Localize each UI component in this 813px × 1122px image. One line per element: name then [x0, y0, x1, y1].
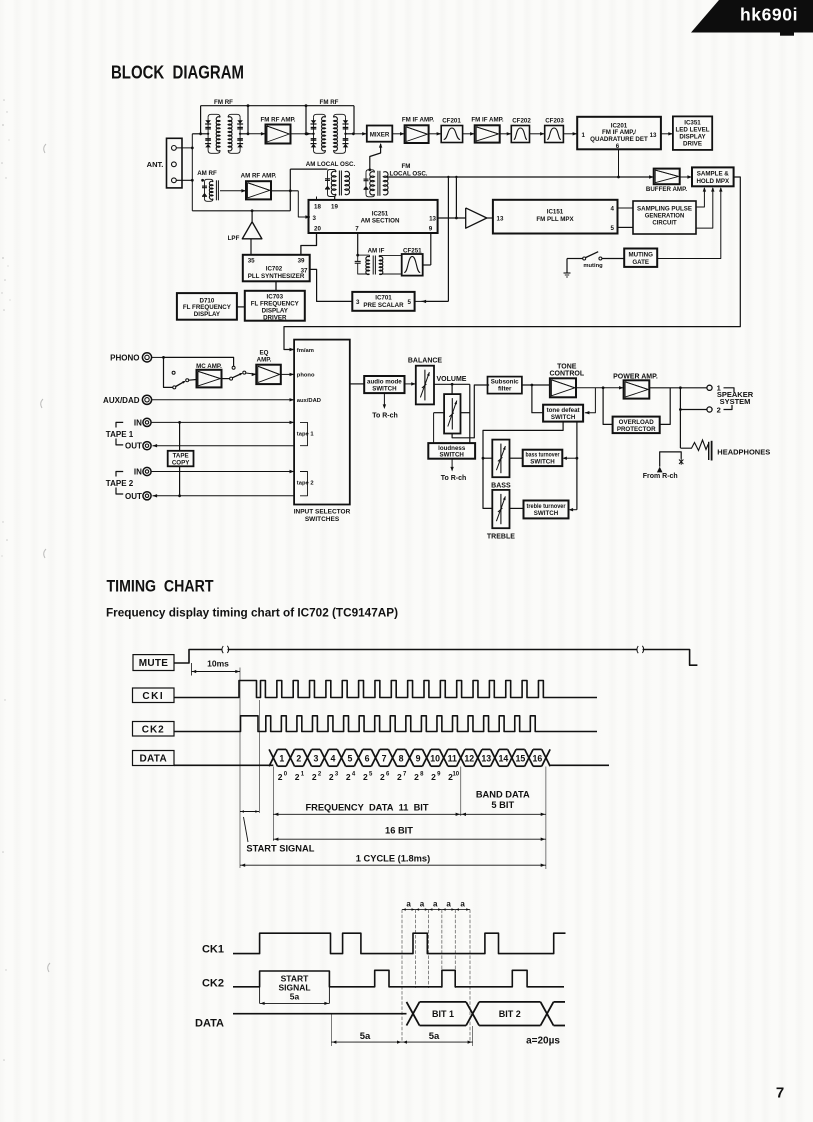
svg-text:7: 7 — [355, 226, 359, 233]
svg-text:COPY: COPY — [172, 459, 190, 466]
svg-text:16: 16 — [533, 754, 543, 764]
svg-text:5: 5 — [611, 225, 615, 232]
svg-text:6: 6 — [386, 771, 390, 777]
svg-text:CKI: CKI — [142, 691, 164, 702]
svg-text:tape 1: tape 1 — [297, 431, 315, 437]
svg-text:SAMPLE &: SAMPLE & — [697, 170, 730, 177]
svg-text:hk690i: hk690i — [740, 5, 798, 25]
svg-text:9: 9 — [437, 771, 441, 777]
svg-text:ANT.: ANT. — [147, 160, 164, 169]
svg-text:CK1: CK1 — [202, 943, 224, 955]
svg-text:13: 13 — [481, 754, 491, 764]
svg-text:5a: 5a — [429, 1031, 440, 1042]
svg-text:EQ: EQ — [260, 349, 269, 356]
svg-text:SYSTEM: SYSTEM — [720, 397, 751, 406]
svg-text:2: 2 — [363, 772, 368, 782]
svg-text:13: 13 — [497, 215, 504, 222]
svg-text:5: 5 — [408, 299, 412, 306]
svg-text:9: 9 — [416, 754, 421, 764]
svg-text:LPF: LPF — [228, 235, 240, 242]
svg-text:DRIVER: DRIVER — [263, 314, 287, 321]
svg-text:1: 1 — [279, 754, 284, 764]
svg-text:39: 39 — [298, 257, 305, 264]
svg-text:BAND DATA: BAND DATA — [476, 789, 530, 799]
svg-text:SAMPLING PULSE: SAMPLING PULSE — [637, 206, 692, 212]
svg-text:5: 5 — [369, 771, 373, 777]
svg-text:10: 10 — [452, 771, 459, 777]
svg-text:2: 2 — [397, 772, 402, 782]
svg-text:IC702: IC702 — [266, 265, 283, 272]
svg-text:PHONO: PHONO — [110, 353, 139, 362]
svg-text:2: 2 — [431, 772, 436, 782]
svg-text:OVERLOAD: OVERLOAD — [619, 419, 655, 426]
svg-text:FM RF AMP.: FM RF AMP. — [260, 117, 295, 124]
svg-text:TREBLE: TREBLE — [487, 534, 515, 541]
svg-text:1: 1 — [301, 771, 305, 777]
svg-text:Subsonic: Subsonic — [491, 379, 519, 386]
svg-text:IC351: IC351 — [684, 120, 701, 127]
svg-text:IN: IN — [134, 418, 142, 427]
svg-text:SWITCHES: SWITCHES — [305, 516, 340, 523]
svg-text:TONE: TONE — [557, 363, 577, 370]
svg-text:SWITCH: SWITCH — [534, 510, 559, 517]
svg-text:FM IF AMP,/: FM IF AMP,/ — [602, 129, 636, 136]
svg-text:3: 3 — [313, 754, 318, 764]
svg-text:6: 6 — [365, 754, 370, 764]
svg-text:BIT 2: BIT 2 — [499, 1009, 521, 1019]
svg-text:HEADPHONES: HEADPHONES — [717, 447, 770, 456]
svg-text:16 BIT: 16 BIT — [385, 825, 413, 835]
svg-text:aux/DAD: aux/DAD — [297, 398, 321, 404]
svg-text:a: a — [420, 899, 425, 908]
svg-text:DATA: DATA — [195, 1018, 224, 1030]
svg-text:2: 2 — [329, 772, 334, 782]
svg-text:5a: 5a — [360, 1031, 371, 1042]
svg-text:BLOCK DIAGRAM: BLOCK DIAGRAM — [111, 63, 244, 83]
svg-text:BUFFER AMP.: BUFFER AMP. — [646, 186, 688, 193]
svg-text:13: 13 — [429, 216, 436, 223]
svg-text:14: 14 — [498, 754, 508, 764]
svg-text:FM PLL MPX: FM PLL MPX — [536, 216, 574, 223]
svg-text:a: a — [446, 899, 451, 908]
svg-text:FM: FM — [402, 163, 411, 170]
svg-text:2: 2 — [717, 405, 721, 414]
svg-text:PLL SYNTHESIZER: PLL SYNTHESIZER — [248, 273, 305, 280]
svg-text:SWITCH: SWITCH — [530, 459, 555, 466]
svg-text:CF202: CF202 — [512, 117, 531, 124]
svg-text:tape 2: tape 2 — [297, 480, 314, 486]
svg-text:BASS: BASS — [491, 482, 511, 489]
svg-text:To R-ch: To R-ch — [372, 413, 398, 420]
svg-text:8: 8 — [420, 771, 424, 777]
svg-text:POWER AMP.: POWER AMP. — [613, 373, 658, 380]
svg-text:To R-ch: To R-ch — [441, 475, 467, 482]
svg-text:From R-ch: From R-ch — [643, 473, 678, 480]
svg-text:2: 2 — [296, 754, 301, 764]
svg-text:SWITCH: SWITCH — [439, 452, 464, 459]
svg-text:1 CYCLE (1.8ms): 1 CYCLE (1.8ms) — [356, 854, 430, 864]
svg-text:OUT: OUT — [125, 442, 142, 451]
svg-text:AM RF: AM RF — [197, 170, 217, 177]
svg-text:9: 9 — [429, 226, 433, 233]
svg-text:DATA: DATA — [140, 754, 168, 765]
svg-text:PRE SCALAR: PRE SCALAR — [363, 302, 404, 309]
svg-text:DRIVE: DRIVE — [683, 141, 702, 148]
svg-text:3: 3 — [356, 299, 360, 306]
svg-text:Frequency display timing chart: Frequency display timing chart of IC702 … — [106, 606, 398, 620]
svg-text:5 BIT: 5 BIT — [491, 800, 514, 810]
svg-text:MIXER: MIXER — [370, 131, 390, 138]
svg-text:5: 5 — [348, 754, 353, 764]
svg-text:1: 1 — [582, 132, 586, 139]
svg-text:AM SECTION: AM SECTION — [361, 218, 400, 225]
svg-text:2: 2 — [312, 772, 317, 782]
svg-text:audio mode: audio mode — [367, 378, 402, 385]
svg-text:GENERATION: GENERATION — [645, 213, 685, 219]
svg-text:filter: filter — [498, 386, 512, 393]
svg-text:2: 2 — [295, 772, 300, 782]
svg-text:a: a — [460, 899, 465, 908]
svg-text:VOLUME: VOLUME — [437, 376, 467, 383]
svg-text:IC151: IC151 — [547, 209, 564, 216]
svg-text:4: 4 — [352, 771, 356, 777]
svg-text:MUTING: MUTING — [628, 251, 653, 258]
svg-text:tone defeat: tone defeat — [547, 407, 580, 414]
svg-text:10ms: 10ms — [207, 659, 229, 669]
svg-text:CONTROL: CONTROL — [549, 371, 584, 378]
svg-text:12: 12 — [464, 754, 474, 764]
svg-text:2: 2 — [318, 771, 322, 777]
svg-text:BIT 1: BIT 1 — [432, 1009, 454, 1019]
svg-text:5a: 5a — [290, 992, 300, 1002]
svg-text:PROTECTOR: PROTECTOR — [617, 426, 656, 433]
svg-text:AM IF: AM IF — [368, 248, 385, 255]
svg-text:fm/am: fm/am — [297, 348, 314, 354]
svg-text:TAPE 1: TAPE 1 — [106, 430, 134, 439]
svg-text:18: 18 — [314, 203, 321, 210]
svg-text:CIRCUIT: CIRCUIT — [652, 220, 677, 226]
svg-text:MUTE: MUTE — [139, 658, 169, 669]
svg-text:phono: phono — [297, 373, 315, 379]
svg-text:AUX/DAD: AUX/DAD — [103, 396, 140, 405]
svg-text:IC701: IC701 — [375, 294, 392, 301]
svg-text:10: 10 — [430, 754, 440, 764]
svg-text:SWITCH: SWITCH — [551, 414, 576, 421]
svg-text:2: 2 — [414, 772, 419, 782]
svg-text:CF203: CF203 — [545, 117, 564, 124]
svg-text:AMP.: AMP. — [257, 356, 272, 363]
svg-text:2: 2 — [278, 772, 283, 782]
svg-text:6: 6 — [616, 143, 620, 150]
svg-text:8: 8 — [399, 754, 404, 764]
svg-text:GATE: GATE — [632, 259, 649, 266]
svg-text:a: a — [433, 899, 438, 908]
svg-text:IN: IN — [134, 468, 142, 477]
svg-text:11: 11 — [448, 754, 457, 764]
svg-text:INPUT SELECTOR: INPUT SELECTOR — [294, 509, 351, 516]
svg-text:START SIGNAL: START SIGNAL — [246, 843, 314, 853]
svg-text:35: 35 — [248, 257, 255, 264]
svg-text:4: 4 — [330, 754, 335, 764]
svg-text:FM IF AMP.: FM IF AMP. — [402, 117, 435, 124]
svg-text:SWITCH: SWITCH — [372, 386, 397, 393]
svg-text:13: 13 — [650, 132, 657, 139]
svg-text:CK2: CK2 — [202, 978, 224, 990]
svg-text:LED LEVEL: LED LEVEL — [675, 127, 709, 134]
svg-text:FM RF: FM RF — [320, 99, 339, 106]
svg-text:15: 15 — [515, 754, 525, 764]
svg-text:20: 20 — [314, 226, 321, 233]
svg-text:IC251: IC251 — [372, 210, 389, 217]
svg-text:a: a — [406, 899, 411, 908]
svg-text:CF201: CF201 — [442, 117, 461, 124]
svg-text:19: 19 — [331, 203, 338, 210]
svg-text:DISPLAY: DISPLAY — [679, 134, 706, 141]
svg-text:BALANCE: BALANCE — [408, 357, 443, 364]
svg-text:0: 0 — [284, 771, 288, 777]
svg-text:7: 7 — [382, 754, 387, 764]
svg-text:a=20µs: a=20µs — [526, 1036, 560, 1047]
svg-text:FREQUENCY DATA 11 BIT: FREQUENCY DATA 11 BIT — [305, 802, 428, 812]
svg-text:TAPE 2: TAPE 2 — [106, 479, 134, 488]
svg-text:2: 2 — [346, 772, 351, 782]
svg-text:3: 3 — [313, 215, 317, 222]
svg-text:FM IF AMP.: FM IF AMP. — [471, 117, 504, 124]
svg-text:OUT: OUT — [125, 492, 142, 501]
svg-text:AM LOCAL OSC.: AM LOCAL OSC. — [306, 161, 356, 168]
svg-text:7: 7 — [403, 771, 407, 777]
svg-text:AM RF AMP.: AM RF AMP. — [241, 173, 277, 180]
svg-text:muting: muting — [583, 263, 603, 269]
svg-text:TIMING CHART: TIMING CHART — [107, 577, 215, 596]
svg-text:FM RF: FM RF — [214, 99, 233, 106]
svg-text:4: 4 — [611, 206, 615, 213]
svg-text:3: 3 — [335, 771, 339, 777]
svg-text:2: 2 — [380, 772, 385, 782]
svg-text:7: 7 — [776, 1085, 784, 1102]
svg-text:HOLD MPX: HOLD MPX — [696, 178, 730, 185]
svg-text:DISPLAY: DISPLAY — [194, 311, 221, 318]
svg-text:CK2: CK2 — [142, 724, 165, 735]
